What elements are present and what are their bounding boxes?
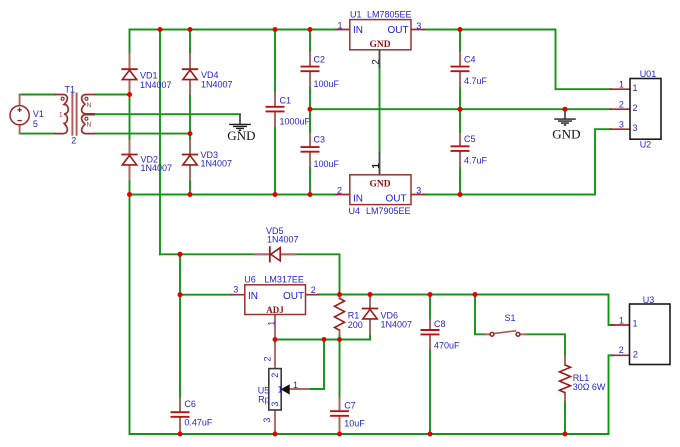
svg-text:C8: C8 [434, 319, 446, 329]
svg-text:OUT: OUT [388, 25, 409, 36]
transformer T1 secondary winding bottom [82, 115, 95, 134]
svg-text:U6: U6 [244, 275, 256, 285]
junction dots ADJ rail [273, 337, 278, 342]
svg-text:10uF: 10uF [344, 419, 365, 429]
V1 leads [19, 95, 21, 134]
svg-text:1: 1 [619, 79, 624, 89]
svg-text:C3: C3 [314, 134, 326, 144]
svg-text:30Ω 6W: 30Ω 6W [573, 382, 606, 392]
wire ADJ rail [275, 339, 370, 341]
VD6 leads [369, 296, 371, 334]
VD2 leads [129, 141, 131, 179]
svg-text:5: 5 [33, 119, 38, 129]
svg-text:IN: IN [353, 25, 363, 36]
svg-text:3: 3 [233, 285, 238, 295]
junction dots bottom rail [178, 432, 183, 437]
wire V1 to primary top [20, 94, 55, 96]
svg-text:4.7uF: 4.7uF [464, 156, 488, 166]
wire secondary bottom terminal [95, 133, 190, 135]
wire U1 out to connector pin1 [424, 30, 611, 90]
svg-text:2: 2 [71, 135, 76, 145]
wire R1 column [339, 295, 341, 340]
wire regulator gnd link [379, 66, 381, 153]
diode VD1 [121, 69, 137, 79]
C6 leads [179, 399, 181, 433]
ground symbol right [554, 109, 576, 125]
regulator U4 box [350, 175, 411, 205]
svg-text:1N4007: 1N4007 [201, 79, 233, 89]
wire mid ground rail [310, 108, 611, 110]
svg-text:1: 1 [633, 318, 638, 328]
svg-text:1N4007: 1N4007 [381, 320, 413, 330]
diode VD6 [362, 309, 378, 319]
wire C8 column [429, 295, 431, 435]
svg-text:2: 2 [633, 103, 638, 113]
svg-text:1N4007: 1N4007 [201, 158, 233, 168]
wires layer [20, 30, 613, 435]
U4 pin stubs [336, 194, 424, 196]
svg-text:100uF: 100uF [314, 79, 340, 89]
wire secondary top terminal [95, 94, 130, 96]
VD1 leads [129, 54, 131, 93]
wire long vertical x160 from top bus to VD5 row [159, 30, 161, 255]
wire switch branch [475, 295, 486, 335]
svg-text:GND: GND [552, 127, 580, 142]
svg-text:3: 3 [416, 186, 421, 196]
svg-text:GND: GND [227, 128, 255, 143]
pot top lead [274, 344, 276, 369]
wire switch to RL1 [525, 334, 566, 434]
C1 leads [274, 93, 276, 126]
svg-text:T1: T1 [65, 85, 76, 95]
R1 leads [339, 296, 341, 334]
svg-text:1N4007: 1N4007 [140, 80, 172, 90]
RL1 leads [564, 357, 566, 401]
connector U3 box [630, 304, 671, 365]
svg-text:Rp: Rp [258, 395, 270, 405]
wire C4 C5 column [459, 30, 461, 195]
junction dot VD5 row [178, 252, 183, 257]
transformer T1 secondary winding top [82, 95, 95, 114]
wire top bus [130, 29, 338, 31]
svg-text:IN: IN [353, 194, 363, 205]
capacitor C3 plates [301, 147, 320, 152]
wire U4 out to connector pin3 [424, 129, 611, 194]
svg-text:C2: C2 [314, 54, 326, 64]
svg-text:1: 1 [278, 384, 283, 394]
wire lower bus [130, 194, 338, 196]
U2 pin stubs [610, 89, 630, 129]
wire pot top lead tip [274, 340, 276, 346]
wire left vertical to bottom rail [129, 195, 131, 435]
transformer polarity dots [61, 97, 64, 100]
pot wiper lead [290, 388, 310, 390]
svg-text:OUT: OUT [386, 194, 407, 205]
wire VD4 column [189, 30, 191, 134]
svg-text:U4: U4 [349, 206, 361, 216]
svg-text:C4: C4 [464, 54, 476, 64]
C4 leads [459, 53, 461, 86]
ground symbol left [229, 114, 251, 130]
wire VD5 row [160, 254, 340, 294]
svg-text:3: 3 [416, 21, 421, 31]
S1 stubs [485, 333, 526, 335]
svg-text:2: 2 [619, 99, 624, 109]
U3 pin stubs [612, 325, 630, 355]
diode VD3 [182, 155, 198, 165]
svg-text:470uF: 470uF [434, 340, 460, 350]
junction dot secondary top [127, 92, 132, 97]
diode VD4 [182, 69, 198, 79]
wire C7 column [339, 340, 341, 435]
svg-text:2: 2 [371, 59, 382, 65]
regulator U6 box [245, 285, 306, 315]
junction dots top bus [158, 27, 163, 32]
svg-text:ADJ: ADJ [266, 305, 284, 315]
transformer T1 primary winding [55, 95, 69, 134]
wire U6 out rail [318, 295, 613, 326]
svg-text:4.7uF: 4.7uF [464, 76, 488, 86]
svg-text:LM317EE: LM317EE [264, 275, 304, 285]
U1 U4 gray gnd pin segments [379, 50, 381, 175]
potentiometer U5 wiper arrow [281, 384, 290, 394]
svg-text:200: 200 [348, 320, 363, 330]
capacitor C4 plates [451, 67, 470, 72]
transformer T1 core [72, 93, 76, 136]
svg-text:2: 2 [311, 285, 316, 295]
capacitor C2 plates [301, 67, 320, 72]
U6 pin stubs [232, 294, 319, 296]
svg-text:N: N [87, 102, 92, 109]
VD4 leads [189, 54, 191, 93]
voltage source V1 [10, 106, 29, 125]
svg-text:U1: U1 [350, 9, 362, 19]
C5 leads [459, 134, 461, 166]
capacitor C8 plates [421, 330, 440, 334]
wire x180 branch down to C6 [179, 254, 181, 434]
svg-text:100uF: 100uF [314, 159, 340, 169]
wire bottom rail [130, 433, 609, 435]
leads layer [20, 53, 565, 433]
VD5 leads [255, 253, 295, 255]
junction dot secondary bottom [188, 131, 193, 136]
C3 leads [309, 134, 311, 166]
svg-text:VD4: VD4 [201, 70, 219, 80]
wire VD2 column [129, 95, 131, 195]
svg-text:3: 3 [619, 119, 624, 129]
svg-text:1: 1 [633, 83, 638, 93]
svg-text:1N4007: 1N4007 [267, 235, 299, 245]
wire U6 in [180, 294, 232, 296]
VD3 leads [189, 141, 191, 179]
svg-text:N: N [87, 122, 92, 129]
svg-text:S1: S1 [505, 313, 516, 323]
svg-text:2: 2 [270, 373, 280, 378]
svg-text:1: 1 [338, 20, 343, 30]
svg-text:3: 3 [633, 123, 638, 133]
C2 leads [309, 53, 311, 86]
diode VD5 [270, 246, 280, 262]
svg-text:OUT: OUT [283, 291, 304, 302]
wire VD1 column [129, 30, 131, 95]
svg-text:1: 1 [371, 163, 382, 169]
wire C2 C3 column [309, 30, 311, 195]
wire wiper riser [308, 340, 324, 390]
junction dots mid rail [308, 107, 313, 112]
svg-text:LM7905EE: LM7905EE [366, 206, 411, 216]
capacitor C5 plates [451, 146, 470, 151]
svg-text:C5: C5 [464, 134, 476, 144]
svg-text:2: 2 [633, 349, 638, 359]
svg-text:0.47uF: 0.47uF [184, 417, 213, 427]
C7 leads [339, 399, 341, 433]
capacitor C6 plates [171, 412, 190, 417]
svg-text:LM7805EE: LM7805EE [367, 9, 412, 19]
svg-text:1: 1 [293, 380, 298, 390]
svg-text:1000uF: 1000uF [280, 116, 311, 126]
wire VD6 column [369, 295, 371, 340]
svg-text:VD1: VD1 [140, 70, 158, 80]
switch S1 [490, 331, 520, 336]
wire VD3 column [189, 134, 191, 195]
svg-text:GND: GND [370, 40, 391, 50]
junction dots U6 out rail [178, 292, 183, 297]
diode VD2 [121, 155, 137, 165]
svg-text:U01: U01 [640, 69, 657, 79]
svg-text:C6: C6 [184, 399, 196, 409]
connector U2 box [630, 79, 661, 140]
svg-text:2: 2 [263, 356, 273, 361]
U6 ADJ stub [274, 315, 276, 339]
svg-text:C7: C7 [344, 400, 356, 410]
svg-text:U2: U2 [640, 139, 652, 149]
svg-text:C1: C1 [280, 95, 292, 105]
dots layer [127, 27, 568, 437]
svg-text:U3: U3 [643, 295, 655, 305]
capacitor C7 plates [330, 411, 349, 416]
svg-text:1: 1 [266, 321, 276, 326]
svg-text:1: 1 [619, 315, 624, 325]
capacitor C1 plates [266, 107, 285, 112]
svg-text:2: 2 [619, 345, 624, 355]
potentiometer U5 box [269, 369, 281, 410]
svg-text:1N4007: 1N4007 [141, 163, 173, 173]
wire V1 to primary bottom [20, 133, 55, 135]
svg-text:3: 3 [270, 402, 280, 407]
regulator U1 box [350, 20, 411, 50]
svg-text:IN: IN [248, 291, 258, 302]
svg-text:V1: V1 [33, 109, 44, 119]
resistor RL1 zigzag [560, 365, 571, 393]
resistor R1 zigzag [335, 298, 345, 330]
svg-text:1: 1 [59, 112, 63, 119]
wire U3 pin2 riser [609, 355, 614, 434]
wire C1 column [274, 30, 276, 195]
U1 pin stubs [336, 29, 424, 31]
pot bottom lead [274, 410, 276, 433]
svg-text:3: 3 [262, 418, 272, 423]
svg-text:2: 2 [337, 186, 342, 196]
junction dots lower bus [127, 192, 132, 197]
C8 leads [429, 320, 431, 348]
wire center tap to GND [86, 113, 240, 115]
svg-text:GND: GND [370, 179, 391, 189]
